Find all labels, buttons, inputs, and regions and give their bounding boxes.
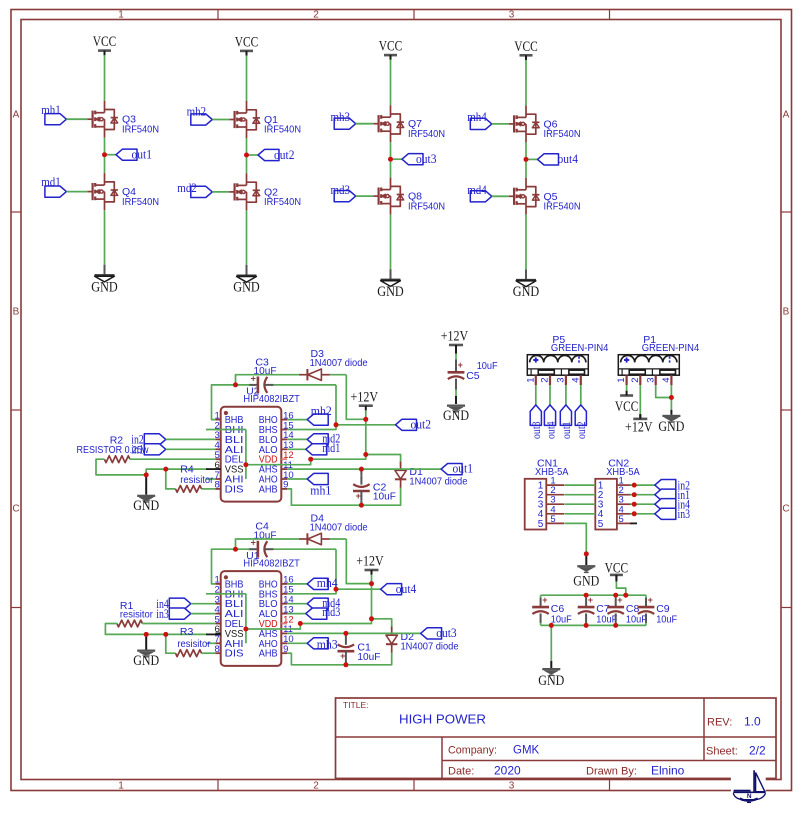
- transistor Q4: [87, 173, 159, 210]
- svg-text:md2: md2: [177, 181, 197, 195]
- wire VSS net (U1): [146, 633, 221, 635]
- capacitor C3 10uF: [249, 356, 277, 393]
- power flag VCC (Q1 bridge): [235, 34, 259, 55]
- svg-text:GREEN-PIN4: GREEN-PIN4: [642, 342, 700, 354]
- svg-text:mh2: mh2: [187, 105, 207, 119]
- net flag mh3 (AHO): [287, 638, 328, 649]
- wire CN1 pin2 to CN2: [564, 494, 595, 496]
- net flag in3 (CN2): [655, 507, 690, 521]
- wire CN1 pin1 to CN2: [564, 484, 595, 486]
- svg-text:+12V: +12V: [356, 554, 384, 570]
- wire CN2 pin1 to in2: [630, 484, 655, 486]
- svg-text:GMK: GMK: [513, 745, 540, 757]
- ground (cap bank): [538, 668, 564, 689]
- title block text: [343, 700, 766, 778]
- wire md4 to Q5 gate: [492, 195, 509, 197]
- svg-text:2: 2: [540, 378, 551, 383]
- svg-text:IRF540N: IRF540N: [264, 124, 301, 136]
- wire C3 right to out node: [274, 385, 336, 425]
- power flag VCC (Q7 bridge): [379, 39, 403, 60]
- svg-text:5: 5: [598, 519, 604, 530]
- wire VDD to D1: [366, 455, 401, 467]
- transistor Q5: [509, 178, 581, 215]
- junction CN2 pin3: [632, 502, 637, 507]
- net flag in1 (CN2): [655, 488, 690, 502]
- junction bootstrap node (C3 left): [233, 382, 238, 387]
- net flag mh4: [467, 110, 492, 129]
- svg-text:out3: out3: [416, 152, 437, 166]
- svg-text:2: 2: [313, 781, 319, 792]
- junction CN GND: [584, 551, 589, 556]
- wire C4 right to out node: [274, 549, 336, 589]
- svg-text:10uF: 10uF: [626, 614, 647, 626]
- svg-text:XHB-5A: XHB-5A: [606, 466, 640, 478]
- transistor Q6: [509, 105, 581, 142]
- net flag mh2 (BHO): [287, 414, 328, 425]
- ground (P1): [658, 410, 684, 435]
- transistor Q8: [373, 178, 445, 215]
- svg-text:mh1: mh1: [41, 103, 61, 117]
- svg-text:+12V: +12V: [441, 329, 469, 345]
- diode D1 1N4007: [395, 462, 468, 489]
- svg-text:1N4007 diode: 1N4007 diode: [401, 640, 459, 652]
- svg-text:md3: md3: [322, 605, 340, 619]
- net flag out2: [247, 148, 295, 162]
- svg-text:md1: md1: [322, 441, 340, 455]
- junction node out4: [524, 157, 529, 162]
- svg-text:10uF: 10uF: [551, 614, 572, 626]
- svg-text:mh3: mh3: [331, 110, 351, 124]
- wire mh2 to Q1 gate: [212, 119, 229, 121]
- wire AHI stub (U1): [206, 642, 215, 644]
- svg-text:IRF540N: IRF540N: [408, 128, 445, 140]
- svg-text:GND: GND: [233, 280, 260, 296]
- junction VDD internal (U2): [243, 462, 248, 467]
- wire CN1 pin4 to CN2: [564, 513, 595, 515]
- logo sailboat: [731, 768, 766, 806]
- svg-text:10uF: 10uF: [477, 360, 498, 372]
- label U1: [243, 550, 300, 569]
- wire +12V to VDD (U1): [300, 575, 371, 624]
- wire AHS to out1 flag: [287, 468, 441, 470]
- junction C1 bottom: [343, 662, 348, 667]
- wire D3 loop top: [236, 375, 366, 420]
- ground (U1 VSS): [133, 635, 159, 669]
- net flag md1: [41, 175, 66, 197]
- svg-text:3: 3: [645, 378, 656, 383]
- wire D4 loop top: [236, 539, 372, 584]
- svg-text:+: +: [458, 360, 463, 370]
- svg-text:IRF540N: IRF540N: [122, 123, 159, 135]
- svg-text:A: A: [13, 110, 20, 121]
- power flag +12V (P1): [625, 414, 653, 435]
- svg-text:3: 3: [556, 378, 567, 383]
- wire BHS to out2 flag: [287, 425, 396, 430]
- wire VCC to rail: [616, 576, 625, 595]
- wire AHS to out3 flag: [287, 632, 421, 634]
- wire DEL network (U1): [105, 624, 215, 635]
- svg-text:out3: out3: [531, 421, 543, 439]
- wire P5 to out3: [535, 385, 537, 405]
- resistor R2: [104, 456, 129, 463]
- svg-text:Company:: Company:: [448, 745, 497, 757]
- svg-text:5: 5: [550, 514, 555, 525]
- resistor R4: [176, 486, 202, 493]
- svg-text:GND: GND: [91, 279, 118, 295]
- svg-text:out1: out1: [453, 462, 474, 476]
- junction +12V / VDD branch (U1): [369, 616, 374, 621]
- wire P5 to out1: [565, 385, 567, 405]
- svg-text:1N4007 diode: 1N4007 diode: [310, 522, 368, 534]
- wire AHB bottom loop (U1): [287, 653, 392, 665]
- svg-text:B: B: [783, 307, 790, 318]
- junction VDD wire (U1): [298, 621, 303, 626]
- capacitor C8 10uF: [607, 595, 647, 626]
- resistor R3: [176, 650, 202, 657]
- capacitor C1 10uF: [338, 633, 381, 662]
- transistor Q1: [229, 101, 301, 138]
- svg-text:HIP4082IBZT: HIP4082IBZT: [243, 394, 300, 405]
- svg-text:1: 1: [616, 378, 627, 383]
- net flag md2 (BLO): [287, 434, 328, 445]
- transistor Q2: [229, 173, 301, 210]
- svg-text:C: C: [782, 504, 789, 515]
- svg-text:VCC: VCC: [605, 560, 629, 576]
- junction VCC feed: [623, 593, 628, 598]
- wire P1 pin2 to +12V: [639, 385, 641, 419]
- wire Q8 source to GND: [390, 215, 392, 270]
- svg-text:VCC: VCC: [379, 39, 403, 55]
- resistor R1: [117, 620, 142, 627]
- svg-text:GND: GND: [573, 574, 599, 590]
- svg-text:md1: md1: [41, 175, 61, 189]
- svg-text:Drawn By:: Drawn By:: [586, 766, 637, 778]
- wire VCC rail top (C6-C9): [541, 594, 646, 596]
- diode D2 1N4007: [386, 627, 459, 654]
- svg-text:2020: 2020: [494, 764, 521, 778]
- connector P5 GREEN-PIN4: [525, 334, 608, 385]
- net flag md3: [331, 183, 356, 202]
- capacitor C5 10uF: [448, 350, 498, 389]
- svg-text:4: 4: [570, 378, 581, 383]
- svg-text:resisitor: resisitor: [177, 638, 210, 650]
- wire Q6 source to Q5 drain: [525, 142, 527, 177]
- net flag in1: [131, 443, 215, 457]
- wire CN1 pin3 to CN2: [564, 503, 595, 505]
- capacitor C2 10uF: [353, 469, 396, 503]
- svg-text:VCC: VCC: [514, 39, 538, 55]
- svg-text:IRF540N: IRF540N: [544, 201, 581, 213]
- wire Q1 source to Q2 drain: [246, 138, 248, 173]
- capacitor C6 10uF: [532, 595, 572, 626]
- wire DIS network (U2): [166, 469, 216, 489]
- svg-text:GREEN-PIN4: GREEN-PIN4: [551, 342, 609, 354]
- net flag out2: [396, 417, 432, 431]
- wire Q2 source to GND: [246, 210, 248, 265]
- svg-text:mh4: mh4: [467, 110, 487, 124]
- wire P1 pin4 to GND: [670, 385, 672, 410]
- svg-text:10uF: 10uF: [357, 651, 380, 663]
- net flag mh1: [41, 103, 66, 125]
- svg-text:5: 5: [619, 514, 624, 525]
- junction VDD internal (U1): [243, 627, 248, 632]
- junction GND drop: [549, 623, 554, 628]
- wire CN2 pin2 to in1: [630, 494, 655, 496]
- wire VDD branch to internal rail (U2): [246, 430, 311, 480]
- svg-text:XHB-5A: XHB-5A: [535, 466, 569, 478]
- svg-text:Elnino: Elnino: [651, 764, 685, 778]
- svg-text:out4: out4: [545, 421, 557, 439]
- svg-text:out1: out1: [132, 148, 153, 162]
- svg-text:+: +: [356, 491, 361, 501]
- junction C1 top: [343, 631, 348, 636]
- wire bootstrap node to pin1 BHB (U2): [212, 385, 250, 420]
- wire CN2 pin3 to in4: [630, 503, 655, 505]
- capacitor C4 10uF: [249, 521, 277, 558]
- net flag out1: [441, 462, 473, 476]
- junction +12V / D3: [363, 417, 368, 422]
- wire mh1 to Q3 gate: [66, 118, 87, 120]
- svg-text:1.0: 1.0: [744, 715, 761, 729]
- junction VDD wire (U2): [308, 457, 313, 462]
- junction DIS branch (U2): [163, 467, 168, 472]
- net flag md4: [467, 183, 492, 202]
- junction C8 bottom: [613, 623, 618, 628]
- svg-text:3: 3: [509, 781, 515, 792]
- svg-text:IRF540N: IRF540N: [122, 196, 159, 208]
- svg-text:REV:: REV:: [707, 717, 732, 729]
- net flag out2 (P5): [575, 405, 588, 439]
- svg-text:md3: md3: [331, 183, 351, 197]
- wire BHI stub (U1): [206, 593, 246, 595]
- power flag +12V (C5): [441, 329, 469, 350]
- wire DEL network (U2): [96, 459, 215, 475]
- svg-text:GND: GND: [513, 284, 540, 300]
- wire BHS to out4 flag: [287, 589, 381, 594]
- junction C8 top: [613, 593, 618, 598]
- svg-text:VCC: VCC: [235, 34, 259, 50]
- power flag VCC (P1): [615, 391, 639, 415]
- title block: [336, 698, 777, 779]
- wire P1 pin1 to VCC: [626, 385, 628, 391]
- wire VDD to D2: [372, 619, 392, 631]
- svg-text:Sheet:: Sheet:: [706, 746, 738, 758]
- power flag +12V (U2 VDD): [351, 389, 379, 410]
- svg-text:out4: out4: [558, 152, 579, 166]
- ground (bridge Q6/Q5): [513, 269, 540, 300]
- transistor Q3: [87, 101, 159, 138]
- svg-text:GND: GND: [133, 498, 159, 514]
- svg-text:2/2: 2/2: [749, 744, 766, 758]
- svg-text:R3: R3: [180, 626, 194, 638]
- net flag out1 (P5): [560, 405, 573, 439]
- net flag md3 (ALO): [287, 608, 327, 619]
- op-amp driver U1 HIP4082IBZT: [215, 571, 294, 666]
- junction C7 bottom: [584, 623, 589, 628]
- svg-text:+12V: +12V: [625, 419, 653, 435]
- wire Q5 source to GND: [525, 215, 527, 270]
- svg-text:1: 1: [525, 378, 536, 383]
- svg-text:out2: out2: [411, 417, 432, 431]
- svg-text:2: 2: [313, 10, 319, 21]
- junction C2 bottom: [359, 503, 364, 508]
- svg-text:IRF540N: IRF540N: [408, 200, 445, 212]
- wire CN1 pin5 to GND: [564, 523, 586, 554]
- svg-text:+: +: [617, 595, 622, 605]
- svg-text:in3: in3: [156, 607, 169, 621]
- svg-text:B: B: [13, 307, 20, 318]
- svg-text:4: 4: [661, 378, 672, 383]
- wire VCC to Q6 drain: [525, 60, 527, 106]
- svg-text:out1: out1: [561, 421, 573, 439]
- junction node out3: [388, 157, 393, 162]
- junction CN2 pin2: [632, 492, 637, 497]
- net flag in3: [156, 607, 215, 621]
- junction node out2: [244, 153, 249, 158]
- net flag in4 (CN2): [655, 498, 691, 512]
- net flag out3: [421, 626, 457, 640]
- wire CN2 pin5 stub: [630, 522, 637, 524]
- ground (bridge Q7/Q8): [377, 269, 404, 300]
- junction P1 GND: [669, 395, 674, 400]
- wire mh3 to Q7 gate: [356, 123, 374, 125]
- svg-text:mh3: mh3: [317, 637, 338, 651]
- junction DIS branch (U1): [163, 632, 168, 637]
- junction CN2 pin1: [632, 483, 637, 488]
- net flag mh3: [331, 110, 356, 129]
- junction GND node (U1): [144, 632, 149, 637]
- svg-text:10uF: 10uF: [656, 614, 677, 626]
- svg-text:Date:: Date:: [448, 766, 474, 778]
- power flag VCC (Q6 bridge): [514, 39, 538, 60]
- svg-text:5: 5: [538, 519, 544, 530]
- net flag md2: [177, 181, 212, 197]
- svg-text:out2: out2: [576, 421, 588, 439]
- ground (bridge Q3/Q4): [91, 265, 118, 296]
- wire C5 to GND: [455, 388, 457, 404]
- svg-text:VCC: VCC: [615, 399, 639, 415]
- power flag VCC (cap bank): [605, 560, 629, 579]
- svg-text:+: +: [648, 595, 653, 605]
- wire GND rail bottom (C6-C9): [541, 624, 646, 626]
- svg-text:+12V: +12V: [351, 389, 379, 405]
- wire VDD branch to internal rail (U1): [246, 594, 300, 644]
- wire VCC to Q7 drain: [390, 60, 392, 106]
- junction +12V / VDD branch (U2): [363, 452, 368, 457]
- op-amp driver U2 HIP4082IBZT: [215, 407, 294, 502]
- net flag out4: [526, 152, 579, 166]
- wire Q7 source to Q8 drain: [390, 142, 392, 177]
- net flag out3 (P5): [530, 405, 543, 439]
- wire VCC to Q1 drain: [246, 55, 248, 101]
- junction +12V / D4: [369, 581, 374, 586]
- svg-text:resisitor: resisitor: [120, 609, 153, 621]
- net flag in2: [131, 433, 215, 447]
- wire Q3 source to Q4 drain: [104, 138, 106, 173]
- svg-text:1N4007 diode: 1N4007 diode: [409, 475, 467, 487]
- svg-text:C: C: [12, 504, 19, 515]
- svg-text:AHB: AHB: [259, 484, 278, 495]
- svg-text:N: N: [747, 793, 752, 800]
- wire CN2 pin4 to in3: [630, 513, 655, 515]
- net flag mh2: [187, 105, 213, 126]
- connector P1 GREEN-PIN4: [616, 334, 699, 385]
- wire +12V to VDD (U2): [311, 410, 366, 459]
- wire VSS net (U2): [146, 469, 221, 475]
- junction out4 node: [334, 587, 339, 592]
- wire md3 to Q8 gate: [356, 195, 374, 197]
- svg-text:HIP4082IBZT: HIP4082IBZT: [243, 558, 300, 569]
- diode D4 1N4007: [299, 513, 368, 545]
- power flag +12V (U1 VDD): [356, 554, 384, 575]
- wire P1 pin3 to GND: [656, 385, 672, 398]
- net flag md4 (BLO): [287, 598, 328, 609]
- svg-text:RESISTOR 0.25w: RESISTOR 0.25w: [77, 445, 150, 456]
- svg-text:+: +: [588, 595, 593, 605]
- wire md1 to Q4 gate: [66, 191, 87, 193]
- junction CN2 pin4: [632, 511, 637, 516]
- ground (U2 VSS): [133, 476, 159, 514]
- junction C7 top: [584, 593, 589, 598]
- svg-text:mh2: mh2: [311, 404, 332, 418]
- svg-text:out3: out3: [436, 626, 457, 640]
- wire VCC to Q3 drain: [104, 55, 106, 101]
- svg-text:DIS: DIS: [225, 649, 244, 660]
- net flag out1: [105, 148, 153, 162]
- net flag mh4 (BHO): [287, 578, 328, 589]
- svg-text:VCC: VCC: [93, 34, 117, 50]
- wire P5 to out2: [580, 385, 582, 405]
- svg-text:GND: GND: [133, 653, 159, 669]
- svg-text:IRF540N: IRF540N: [264, 196, 301, 208]
- svg-text:IRF540N: IRF540N: [544, 128, 581, 140]
- wire P5 to out4: [549, 385, 551, 405]
- svg-text:md4: md4: [467, 183, 487, 197]
- junction C2 top: [359, 467, 364, 472]
- svg-text:resisitor: resisitor: [180, 474, 213, 486]
- net flag out4: [381, 582, 417, 596]
- svg-text:+: +: [542, 595, 547, 605]
- svg-text:10uF: 10uF: [373, 491, 396, 503]
- ground (CN1 pin5): [573, 555, 599, 590]
- svg-text:1N4007 diode: 1N4007 diode: [310, 357, 368, 369]
- svg-text:2: 2: [630, 378, 641, 383]
- svg-text:GND: GND: [538, 673, 564, 689]
- svg-text:HIGH POWER: HIGH POWER: [399, 712, 486, 727]
- diode D3 1N4007: [299, 348, 368, 380]
- svg-text:in3: in3: [678, 507, 691, 521]
- power flag VCC (Q3 bridge): [93, 34, 117, 55]
- net flag in4: [156, 597, 215, 611]
- junction node out1: [102, 152, 107, 157]
- svg-text:A: A: [783, 110, 790, 121]
- connector CN1 XHB-5A: [525, 458, 569, 530]
- net flag in2 (CN2): [655, 478, 690, 492]
- svg-text:TITLE:: TITLE:: [343, 700, 369, 710]
- ground (bridge Q1/Q2): [233, 265, 260, 296]
- svg-text:mh1: mh1: [310, 484, 331, 498]
- net flag out4 (P5): [544, 405, 557, 439]
- junction GND node (U2): [144, 472, 149, 477]
- net flag out3: [391, 152, 437, 166]
- label U2: [243, 386, 300, 405]
- wire mh4 to Q6 gate: [492, 123, 509, 125]
- svg-text:1: 1: [118, 781, 124, 792]
- wire md2 to Q2 gate: [212, 191, 229, 193]
- wire DIS network (U1): [166, 634, 216, 653]
- wire rail to GND: [550, 625, 552, 668]
- junction out2 node: [334, 422, 339, 427]
